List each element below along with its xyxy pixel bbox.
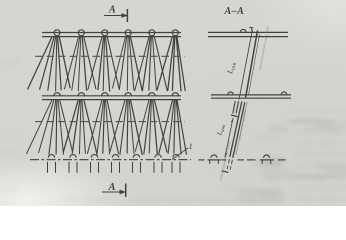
bottom anchor heads — [48, 155, 181, 173]
title A-A — [224, 6, 245, 17]
middle band (section) — [211, 95, 291, 98]
anchor heads row 2 — [54, 93, 179, 96]
note along borehole — [258, 25, 270, 70]
svg-text:А: А — [108, 182, 116, 193]
note along tail — [219, 140, 231, 181]
label L_skv — [225, 61, 238, 76]
bolt fans row 2 — [26, 100, 186, 155]
dashed datum line 1 — [35, 55, 185, 57]
bottom centre line (section) — [199, 159, 286, 161]
bottom anchors (section) — [208, 155, 275, 164]
anchor rod (section) — [222, 102, 248, 173]
svg-text:1: 1 — [189, 141, 193, 151]
bottom row centre line — [30, 159, 191, 161]
section cut mark A (top) — [104, 5, 128, 23]
svg-text:А: А — [108, 5, 116, 16]
borehole outline (upper part) — [239, 31, 260, 100]
waler band row 2 — [42, 96, 181, 100]
bearing plate on top band — [240, 28, 253, 33]
section cut mark A (bottom) — [102, 182, 126, 197]
svg-text:А–А: А–А — [224, 6, 245, 17]
waler band row 1 — [42, 33, 181, 37]
coupling below middle band — [231, 101, 239, 117]
dimension L_ank — [215, 118, 234, 158]
top band (section) — [208, 32, 288, 36]
leader to item 1 — [172, 141, 193, 160]
bolt fans row 1 — [28, 37, 186, 91]
anchor heads row 1 — [54, 30, 178, 36]
anchor heads on middle band — [228, 92, 287, 95]
dashed datum line 2 — [35, 121, 185, 123]
